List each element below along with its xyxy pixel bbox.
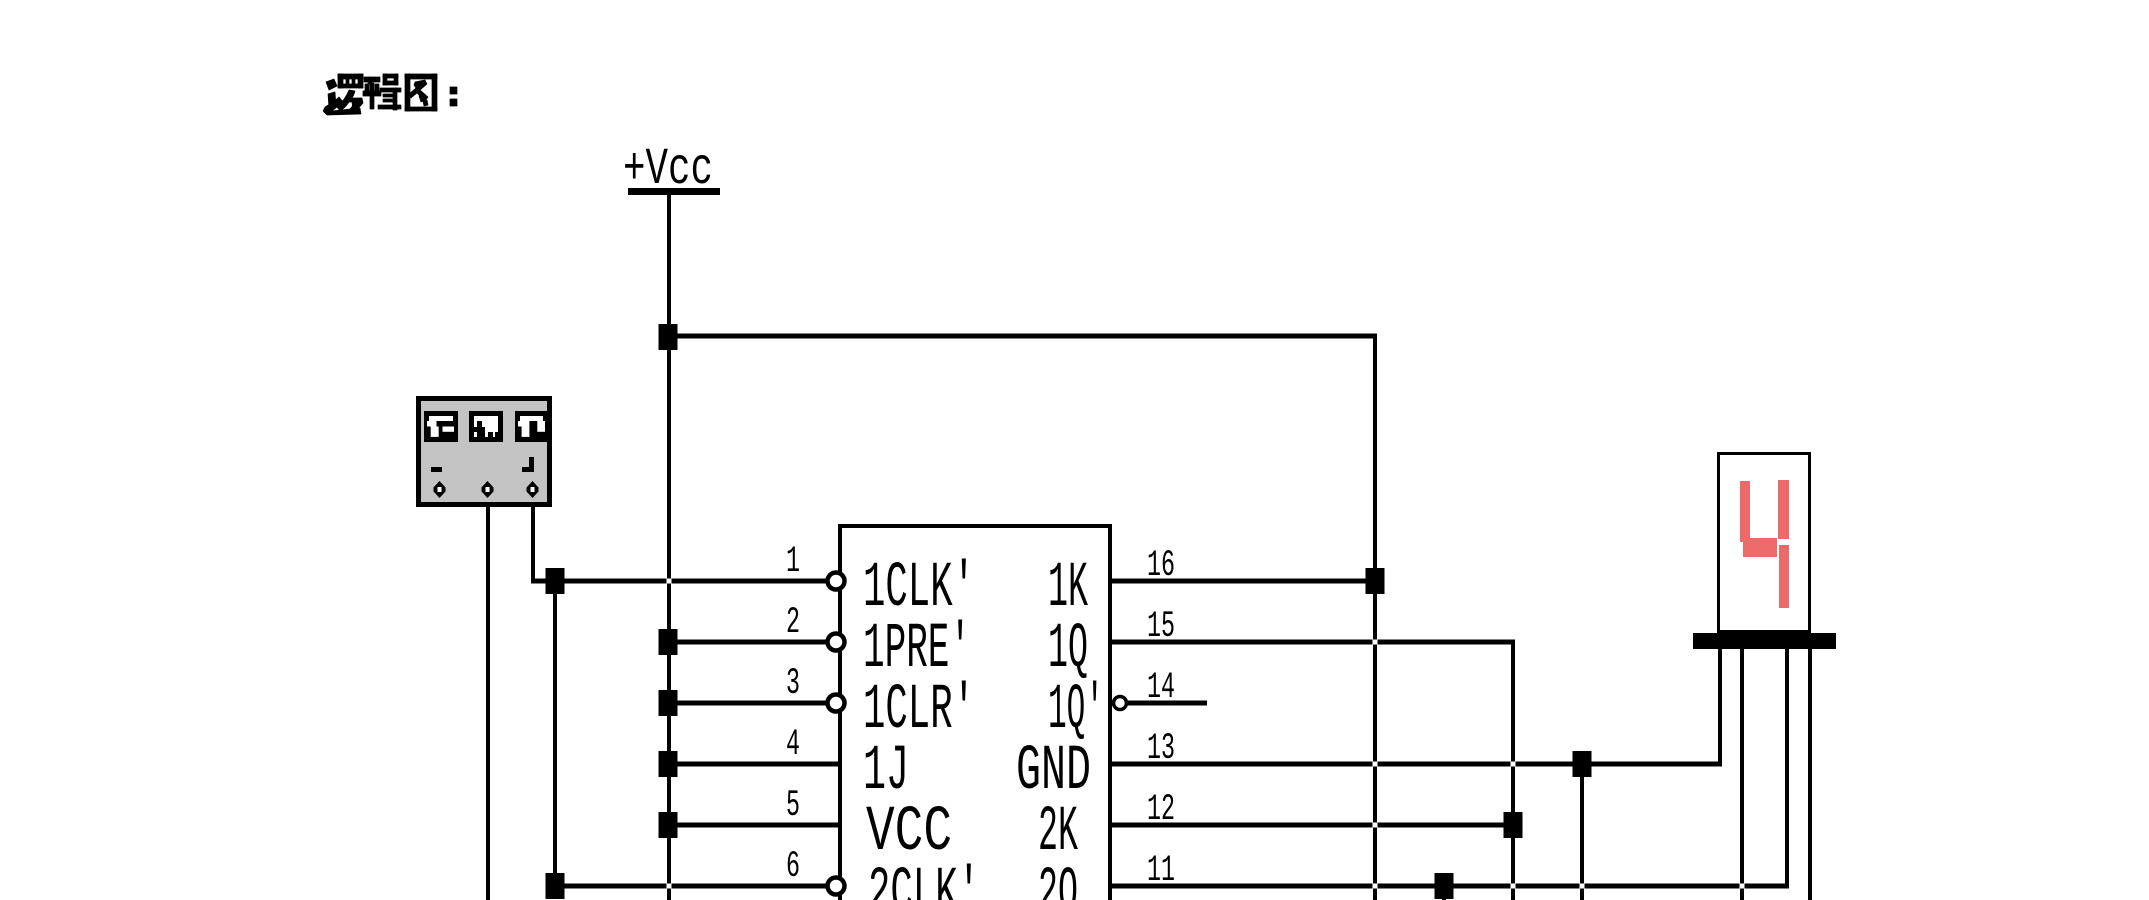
inversion bubble pin14 1Q-bar xyxy=(1114,697,1127,710)
junction J6 rail-VCC xyxy=(659,812,678,838)
signal source step mark xyxy=(522,467,534,472)
wire crossover gap x1513 x pin13 xyxy=(1511,762,1516,767)
wire 2Q branch vertical x1444 xyxy=(1442,884,1446,900)
junction J3 rail-1PRE xyxy=(659,629,678,655)
wire Vcc rail vertical x668 xyxy=(667,195,671,900)
svg-text:12: 12 xyxy=(1147,789,1175,831)
svg-text:1: 1 xyxy=(786,541,800,583)
wire GND branch vertical x1582 xyxy=(1580,762,1584,900)
svg-text:2CLK': 2CLK' xyxy=(868,858,980,900)
wire pin3 1CLR feed xyxy=(667,701,827,706)
wire crossover gap rail x pin6 xyxy=(667,884,672,889)
wire display pin4 lead xyxy=(1808,633,1812,900)
junction J7 clock bus bottom xyxy=(546,873,565,899)
wire pin15 1Q wire xyxy=(1112,640,1515,645)
7-segment digit 4 segment c (bottom-right) xyxy=(1779,545,1789,608)
svg-text:15: 15 xyxy=(1147,606,1175,648)
wire crossover gap x1375 x pin11 xyxy=(1373,884,1378,889)
junction J4 rail-1CLR xyxy=(659,690,678,716)
wire pin14 1Q-bar stub xyxy=(1128,701,1207,706)
signal source terminal right xyxy=(527,481,539,498)
wire crossover gap x1375 x pin12 xyxy=(1373,823,1378,828)
7-segment display base bar xyxy=(1693,633,1836,649)
wire pin5 VCC feed xyxy=(667,823,840,828)
wire clock bus x555 xyxy=(553,581,557,888)
signal source (word generator) body xyxy=(419,399,550,505)
signal source terminal left xyxy=(434,481,446,498)
signal source waveform button 2 xyxy=(472,414,501,440)
inversion bubble pin6 2CLK xyxy=(828,878,845,895)
svg-text:5: 5 xyxy=(786,785,800,827)
inversion bubble pin2 1PRE xyxy=(828,634,845,651)
junction J5 rail-1J xyxy=(659,751,678,777)
wire crossover gap x1742 x pin11 xyxy=(1740,884,1745,889)
wire display pin3 lead xyxy=(1785,640,1789,888)
signal source minus mark xyxy=(431,467,442,472)
power symbol +Vcc bar xyxy=(628,188,720,195)
wire signal source middle terminal drop xyxy=(486,494,490,900)
wire display pin1 lead xyxy=(1718,633,1722,766)
signal source terminal middle xyxy=(482,481,494,498)
junction J2 clock bus top xyxy=(546,568,565,594)
svg-text:6: 6 xyxy=(786,846,800,888)
wire pin2 1PRE feed xyxy=(667,640,827,645)
signal source waveform button 3 xyxy=(518,414,546,440)
svg-text:3: 3 xyxy=(786,663,800,705)
wire pin6 2CLK feed xyxy=(553,884,827,889)
inversion bubble pin1 1CLK xyxy=(828,573,845,590)
wire pin12 2K wire xyxy=(1112,823,1513,828)
wire top wire drop to pin16 xyxy=(1373,334,1377,900)
junction J9 2K-1Q xyxy=(1504,812,1523,838)
junction J8 1K-top wire xyxy=(1366,568,1385,594)
wire signal source right terminal drop xyxy=(531,494,535,583)
wire pin4 1J feed xyxy=(667,762,840,767)
wire crossover gap x1513 x pin11 xyxy=(1511,884,1516,889)
wire crossover gap rail x pin1 xyxy=(667,579,672,584)
inversion bubble pin3 1CLR xyxy=(828,695,845,712)
svg-text:2Q: 2Q xyxy=(1038,858,1078,900)
wire pin13 GND wire xyxy=(1112,762,1722,767)
7-segment digit 4 segment f (top-left) xyxy=(1740,481,1750,542)
wire pin1 1CLK feed xyxy=(531,579,827,584)
wire 1Q-to-2K vertical x1513 xyxy=(1511,640,1515,900)
title text 逻辑图: (hand-drawn strokes) xyxy=(323,74,457,115)
wire pin16 1K wire xyxy=(1112,579,1377,584)
junction J11 2Q branch xyxy=(1435,873,1454,899)
svg-text:2: 2 xyxy=(786,602,800,644)
svg-text:16: 16 xyxy=(1147,545,1175,587)
svg-text:4: 4 xyxy=(786,724,800,766)
wire display pin2 lead xyxy=(1740,640,1744,900)
signal source waveform button 1 xyxy=(427,414,456,440)
7-segment display body xyxy=(1719,454,1810,632)
junction J1 rail-top wire xyxy=(659,324,678,350)
7-segment digit 4 segment b (top-right) xyxy=(1778,480,1789,539)
wire crossover gap x1375 x pin13 xyxy=(1373,762,1378,767)
wire crossover gap x1375 x pin15 xyxy=(1373,640,1378,645)
svg-text:13: 13 xyxy=(1147,728,1175,770)
wire crossover gap x1582 x pin11 xyxy=(1580,884,1585,889)
7-segment digit 4 segment g (middle) xyxy=(1743,538,1777,557)
wire Vcc-to-1K top wire xyxy=(667,334,1377,339)
IC U1 JK flip-flop body xyxy=(840,526,1110,900)
junction J10 GND branch xyxy=(1573,751,1592,777)
svg-text:11: 11 xyxy=(1147,850,1175,892)
svg-text:14: 14 xyxy=(1147,667,1175,709)
wire pin11 2Q wire xyxy=(1112,884,1789,889)
